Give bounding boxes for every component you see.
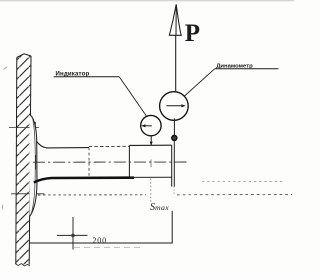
shaft sleeve left vertical edge [128, 145, 130, 177]
svg-text:200: 200 [93, 236, 107, 245]
svg-text:P: P [185, 20, 200, 47]
svg-text:Smax: Smax [150, 202, 169, 213]
shaft centerline (dash-dot) [33, 161, 189, 163]
faint left edge mark [1, 205, 4, 210]
dynamometer label underline [215, 68, 279, 70]
wall bottom break line [15, 264, 30, 267]
wall left edge [15, 58, 18, 265]
indicator dial circle [141, 115, 161, 135]
shaft sleeve section top edge [130, 144, 172, 146]
indicator leader line [119, 77, 146, 116]
shaft hidden top edge (dashed) [89, 145, 130, 147]
flange center tick [35, 155, 37, 170]
deflected position line left segment (dashed) [38, 194, 146, 196]
indicator stem faint continuation [150, 160, 152, 203]
force line from arrow to dynamometer [175, 35, 177, 91]
shaft sleeve bottom edge [129, 176, 171, 178]
wall top edge [17, 54, 31, 58]
dimension line 200 [30, 242, 173, 244]
force arrow shaft inside head [175, 5, 177, 35]
contact ball [172, 135, 177, 140]
shaft body section 1 top edge [46, 147, 89, 149]
dynamometer needle [167, 104, 186, 107]
datum cross dot [71, 234, 75, 238]
dynamometer leader line [181, 69, 215, 99]
shaft end face [171, 145, 173, 186]
wall hatch fill [16, 54, 31, 265]
datum cross horizontal [57, 234, 88, 236]
wall right edge [29, 56, 31, 265]
dynamometer lower stem [173, 118, 175, 135]
faint shadow dashes under dimension line [74, 246, 140, 248]
deflected position line right segment (dashed) [177, 193, 292, 195]
shaft flange outline [30, 115, 38, 217]
dynamometer dial circle [160, 92, 189, 121]
datum cross vertical [72, 217, 74, 250]
load rod [173, 141, 175, 187]
faint pen mark top-left [4, 67, 8, 70]
load rod faint dotted segment [173, 187, 175, 196]
indicator label underline [54, 76, 120, 78]
deflected line faint upper [202, 181, 284, 183]
indicator stem with arrow [150, 136, 153, 146]
indicator needle [141, 124, 152, 127]
lower bolt centerline [11, 189, 45, 200]
dimension riser [171, 211, 173, 243]
shaft taper cone top [37, 142, 47, 148]
faint scan line top edge [0, 0, 294, 2]
shaft hidden vertical edge (dashed) [88, 148, 90, 178]
shaft taper cone bottom + thick bottom edge [34, 178, 134, 183]
force arrow P head [169, 4, 181, 35]
upper bolt centerline [9, 122, 39, 133]
